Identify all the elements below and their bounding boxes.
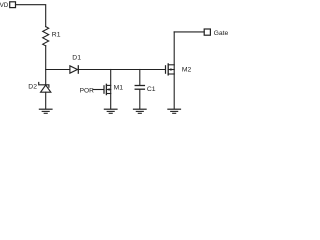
svg-text:C1: C1 bbox=[147, 86, 156, 93]
svg-text:M1: M1 bbox=[114, 85, 124, 92]
svg-text:D1: D1 bbox=[72, 54, 81, 61]
svg-text:Gate: Gate bbox=[214, 30, 228, 37]
svg-text:D2: D2 bbox=[28, 83, 37, 90]
svg-text:VD: VD bbox=[0, 2, 9, 9]
svg-text:M2: M2 bbox=[182, 66, 192, 73]
svg-text:R1: R1 bbox=[52, 31, 61, 38]
svg-text:POR: POR bbox=[80, 87, 95, 94]
